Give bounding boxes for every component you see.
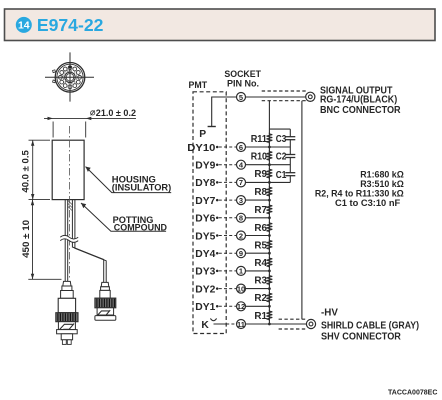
svg-text:P: P (199, 129, 206, 140)
dashed lead DY5 to pin 2 (219, 235, 237, 237)
pin 7 circle (237, 178, 246, 187)
dashed lead DY1 to pin 12 (219, 305, 237, 307)
pin 10 circle (237, 284, 246, 293)
svg-text:BNC CONNECTOR: BNC CONNECTOR (320, 105, 401, 116)
wire pin 8 to chain (246, 217, 270, 219)
svg-text:R9: R9 (254, 169, 267, 180)
svg-text:R7: R7 (254, 205, 267, 216)
BNC output terminal (306, 92, 315, 101)
BNC connector (95, 282, 116, 320)
svg-text:K: K (201, 320, 209, 331)
svg-text:SHIRLD CABLE (GRAY): SHIRLD CABLE (GRAY) (321, 321, 419, 332)
resistor R11 (267, 133, 273, 144)
SHV HV terminal (306, 319, 315, 328)
junction dot (268, 216, 271, 219)
capacitor C1 (276, 170, 296, 181)
svg-text:DY3: DY3 (195, 267, 215, 278)
junction dot (268, 270, 271, 273)
resistor R4 (267, 257, 273, 268)
header bar (5, 9, 436, 41)
junction dot (268, 234, 271, 237)
svg-text:DY1: DY1 (195, 302, 215, 313)
svg-text:R11: R11 (251, 134, 268, 145)
dynode DY3 lead dot (195, 267, 218, 278)
junction dot (268, 305, 271, 308)
socket pin holes ring (59, 66, 82, 89)
resistor R6 (267, 222, 273, 233)
dimension phi21.0 +-0.2 (44, 118, 136, 137)
svg-text:R2: R2 (254, 293, 267, 304)
svg-text:R10: R10 (251, 151, 268, 162)
dimension 40.0 +-0.5 (29, 140, 51, 199)
svg-text:SHV CONNECTOR: SHV CONNECTOR (321, 332, 401, 343)
capacitor C3 (276, 134, 296, 145)
svg-text:DY8: DY8 (195, 178, 215, 189)
pin 8 circle (237, 213, 246, 222)
wire pin 6 to chain (246, 146, 291, 148)
SHV bayonet squiggle (60, 324, 74, 330)
junction dot (268, 199, 271, 202)
dashed lead DY8 to pin 7 (219, 181, 237, 183)
svg-text:14: 14 (18, 20, 30, 32)
dashed lead DY2 to pin 10 (219, 288, 237, 290)
PMT dashed box (193, 92, 226, 334)
coax shield dashes top (262, 91, 306, 101)
junction dot (268, 181, 271, 184)
svg-text:DY4: DY4 (195, 249, 215, 260)
pin 6 circle (237, 143, 246, 152)
BNC bayonet squiggle (98, 310, 111, 315)
svg-text:6: 6 (239, 143, 243, 152)
svg-text:DY6: DY6 (195, 214, 215, 225)
pin 2 circle (237, 231, 246, 240)
svg-text:3: 3 (239, 196, 243, 205)
housing rectangle (52, 140, 84, 199)
pin 5 circle (237, 93, 246, 102)
socket index dot (69, 66, 72, 69)
wire pin 2 to chain (246, 235, 270, 237)
svg-text:R8: R8 (254, 187, 267, 198)
label HOUSING (INSULATOR) (86, 167, 172, 194)
potting compound hatch at cable entry (68, 201, 72, 211)
junction dot (268, 252, 271, 255)
divider chain bus (268, 101, 270, 324)
socket crosshair (45, 52, 94, 101)
housing center line (69, 126, 71, 280)
svg-text:12: 12 (237, 302, 245, 311)
svg-text:C3: C3 (276, 134, 287, 145)
socket center boss (65, 72, 75, 82)
svg-text:7: 7 (239, 178, 243, 187)
wire pin 12 to chain (246, 305, 270, 307)
pin 1 circle (237, 266, 246, 275)
label -HV / SHV (321, 308, 419, 343)
dynode DY7 lead dot (195, 196, 218, 207)
junction dot (268, 323, 271, 326)
svg-text:1: 1 (239, 267, 243, 276)
svg-text:5: 5 (239, 93, 243, 102)
dynode DY5 lead dot (195, 231, 218, 242)
resistor R3 (267, 274, 273, 285)
left cable (SHV, gray) (65, 200, 68, 282)
svg-text:PIN No.: PIN No. (227, 79, 259, 89)
wire pin 4 to chain (246, 164, 291, 166)
dynode DY4 lead dot (195, 249, 218, 260)
wire pin 11 to chain (246, 323, 307, 325)
resistor R10 (267, 150, 273, 161)
junction dot (268, 146, 271, 149)
svg-text:C1: C1 (276, 170, 287, 181)
label SIGNAL OUTPUT (320, 86, 401, 116)
wire pin 1 to chain (246, 270, 270, 272)
socket key tabs (53, 70, 56, 83)
svg-text:E974-22: E974-22 (37, 15, 104, 35)
capacitor bus top wire (269, 128, 290, 130)
dashed lead DY7 to pin 3 (219, 199, 237, 201)
circled number 14 (16, 17, 32, 33)
svg-text:DY9: DY9 (195, 160, 215, 171)
svg-text:DY2: DY2 (195, 284, 215, 295)
resistor R1 (267, 310, 273, 321)
capacitor bus (289, 129, 291, 182)
label SOCKET PIN No. (224, 69, 261, 89)
cable break symbol (60, 235, 78, 242)
svg-text:R4: R4 (254, 258, 267, 269)
svg-text:11: 11 (237, 320, 245, 329)
svg-text:21.0 ± 0.2: 21.0 ± 0.2 (96, 108, 136, 118)
wire pin 9 to chain (246, 252, 270, 254)
svg-text:(INSULATOR): (INSULATOR) (112, 183, 171, 194)
dynode DY8 lead dot (195, 178, 218, 189)
junction dot (268, 163, 271, 166)
svg-text:R5: R5 (254, 240, 267, 251)
cathode K (201, 318, 216, 331)
svg-text:R1: R1 (254, 311, 267, 322)
dashed lead DY6 to pin 8 (219, 217, 237, 219)
SHV connector (56, 281, 78, 344)
pin 12 circle (237, 302, 246, 311)
label POTTING COMPOUND (81, 203, 167, 234)
socket top view outer body (55, 63, 85, 93)
HV shield bus (301, 101, 303, 320)
svg-text:DY10: DY10 (187, 143, 215, 154)
junction dot (268, 287, 271, 290)
SHV knurl ribs (58, 313, 76, 321)
svg-text:SOCKET: SOCKET (224, 69, 261, 79)
svg-text:DY5: DY5 (195, 231, 215, 242)
svg-text:450 ± 10: 450 ± 10 (20, 220, 31, 258)
pin 3 circle (237, 196, 246, 205)
pin 11 circle (237, 320, 246, 329)
svg-text:10: 10 (237, 284, 245, 293)
svg-text:40.0 ± 0.5: 40.0 ± 0.5 (19, 150, 30, 192)
dynode DY9 lead dot (195, 160, 218, 171)
resistor R8 (267, 186, 273, 197)
coax shield dashes bottom (279, 319, 306, 329)
svg-text:C2: C2 (276, 152, 287, 163)
wire pin 3 to chain (246, 199, 270, 201)
anode wire to pin 5 (212, 97, 237, 127)
pin 4 circle (237, 160, 246, 169)
svg-text:R6: R6 (254, 223, 267, 234)
dynode DY6 lead dot (195, 214, 218, 225)
resistor R7 (267, 204, 273, 215)
svg-text:C1 to C3:10 nF: C1 to C3:10 nF (335, 197, 400, 208)
dynode DY2 lead dot (195, 284, 218, 295)
svg-text:-HV: -HV (321, 308, 338, 319)
resistor R5 (267, 239, 273, 250)
wire pin 7 to chain (246, 181, 291, 183)
right cable (BNC, black) (72, 200, 106, 283)
svg-text:8: 8 (239, 214, 243, 223)
svg-text:DY7: DY7 (195, 196, 215, 207)
svg-text:9: 9 (239, 249, 243, 258)
pin 9 circle (237, 249, 246, 258)
anode plate P (208, 126, 216, 128)
capacitor C2 (276, 152, 296, 163)
signal output wire pin5 to BNC (246, 96, 306, 98)
dynode DY1 lead dot (195, 302, 218, 313)
dimension 450 +-10 (28, 200, 61, 280)
svg-text:2: 2 (239, 231, 243, 240)
component values (315, 168, 404, 208)
resistor R2 (267, 292, 273, 303)
svg-text:R3: R3 (254, 276, 267, 287)
cathode lead to pin 11 (214, 323, 237, 325)
svg-text:TACCA0078EC: TACCA0078EC (388, 387, 438, 396)
dashed lead DY10 to pin 6 (219, 146, 237, 148)
wire pin 10 to chain (246, 288, 270, 290)
dashed lead DY4 to pin 9 (219, 252, 237, 254)
dynode DY10 lead dot (187, 143, 218, 154)
dashed lead DY9 to pin 4 (219, 164, 237, 166)
svg-text:PMT: PMT (189, 80, 208, 91)
svg-text:COMPOUND: COMPOUND (114, 223, 167, 234)
resistor R9 (267, 168, 273, 179)
BNC knurl ribs (97, 299, 115, 308)
dashed lead DY3 to pin 1 (219, 270, 237, 272)
